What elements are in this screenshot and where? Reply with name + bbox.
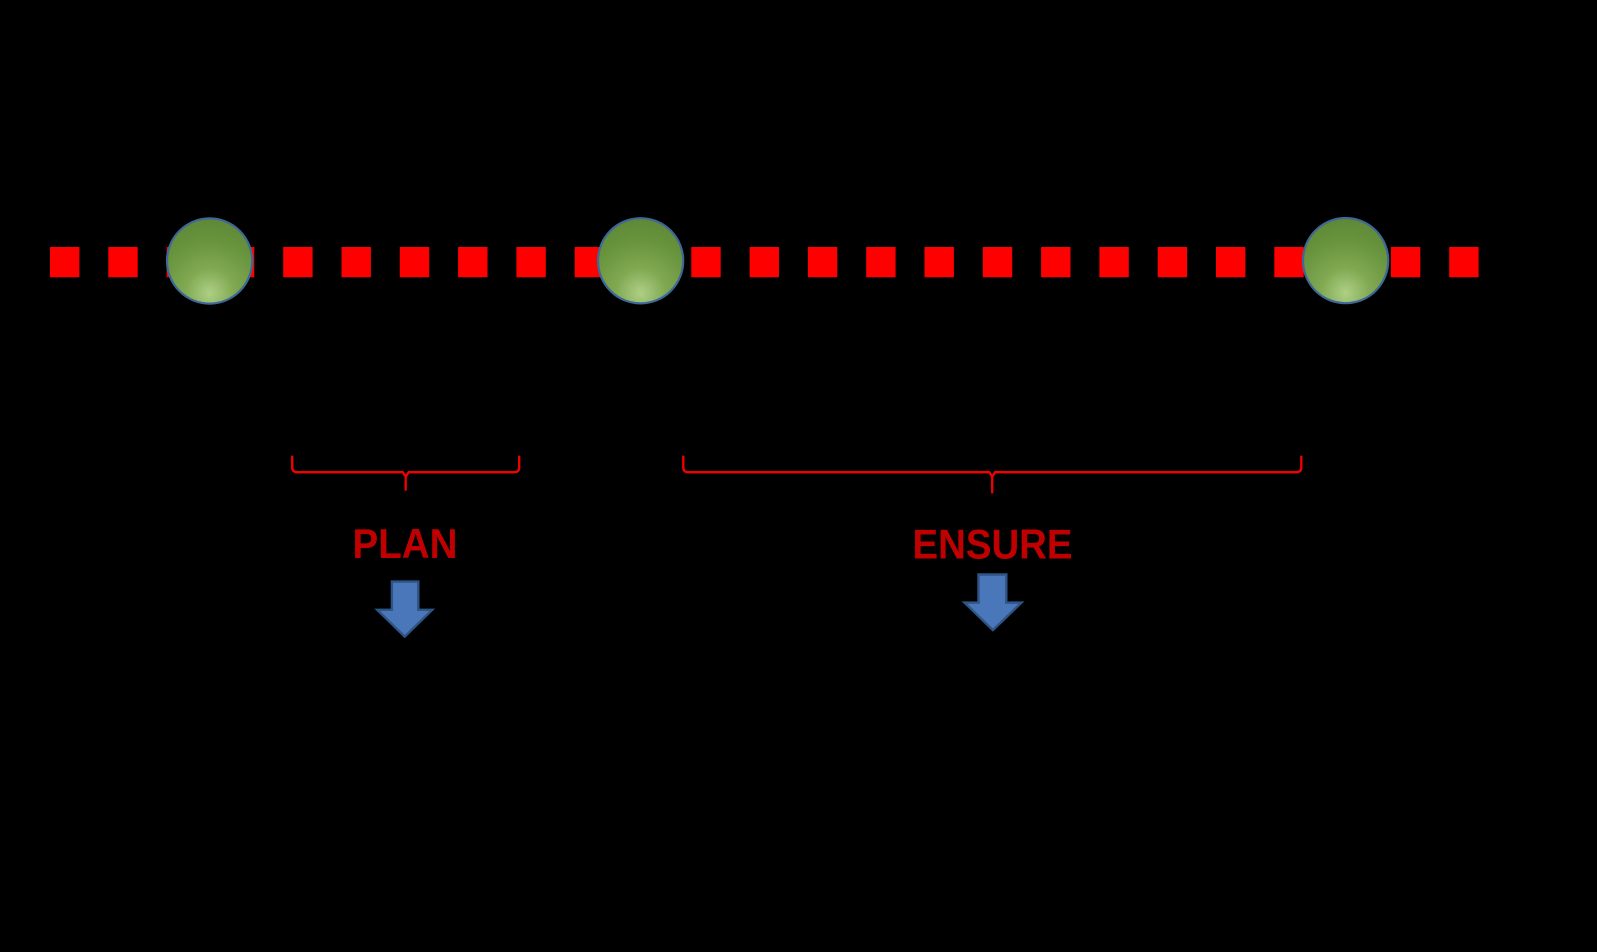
svg-text:ENSURE: ENSURE — [913, 520, 1073, 567]
svg-text:PLAN: PLAN — [353, 520, 458, 567]
